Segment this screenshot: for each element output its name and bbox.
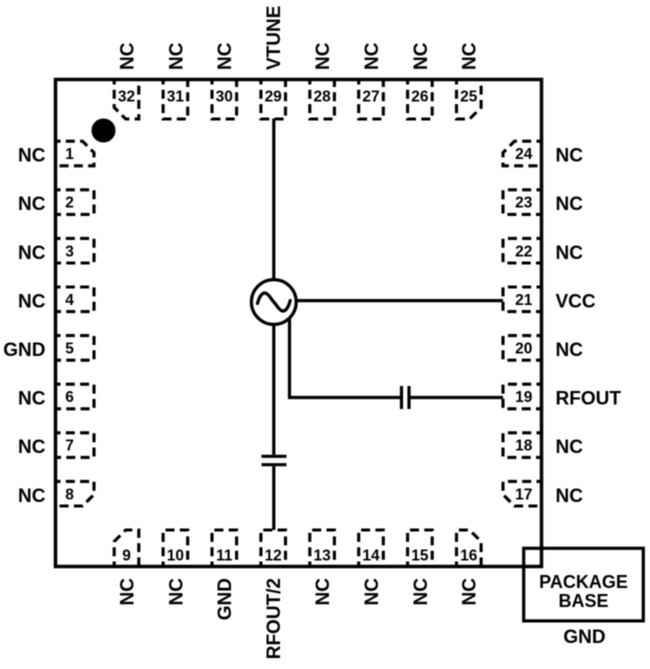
svg-text:22: 22: [515, 243, 532, 260]
svg-text:31: 31: [167, 88, 185, 105]
svg-text:NC: NC: [556, 340, 584, 361]
svg-text:29: 29: [265, 88, 283, 105]
pin 32 pad: [114, 80, 139, 120]
svg-text:VCC: VCC: [556, 291, 596, 312]
svg-text:NC: NC: [460, 42, 481, 70]
svg-text:NC: NC: [411, 578, 432, 606]
pin 23 pad: [503, 190, 542, 215]
svg-text:5: 5: [65, 341, 74, 358]
pin 18 pad: [503, 433, 542, 458]
svg-text:27: 27: [362, 88, 379, 105]
pin 30 pad: [212, 80, 237, 120]
svg-text:NC: NC: [362, 42, 383, 70]
pin 24 pad: [503, 141, 542, 166]
pin 1 index dot: [92, 119, 116, 143]
svg-text:NC: NC: [18, 291, 46, 312]
svg-text:NC: NC: [117, 578, 138, 606]
svg-text:NC: NC: [18, 389, 46, 410]
svg-text:7: 7: [65, 438, 74, 455]
svg-text:NC: NC: [556, 486, 584, 507]
pin 29 pad: [261, 80, 286, 120]
svg-text:GND: GND: [563, 627, 605, 648]
pin 11 pad: [212, 530, 237, 567]
pin 15 pad: [408, 530, 433, 567]
pin 10 pad: [163, 530, 188, 567]
svg-text:10: 10: [167, 548, 184, 565]
svg-text:25: 25: [460, 88, 478, 105]
svg-text:12: 12: [265, 548, 282, 565]
svg-text:20: 20: [515, 341, 532, 358]
svg-text:1: 1: [65, 146, 74, 163]
svg-text:16: 16: [460, 548, 478, 565]
svg-text:NC: NC: [556, 437, 584, 458]
svg-text:26: 26: [411, 88, 429, 105]
svg-text:18: 18: [515, 438, 533, 455]
pin 5 pad: [56, 336, 95, 361]
svg-text:NC: NC: [166, 42, 187, 70]
pin 9 pad: [114, 530, 139, 567]
wire oscillator down to capacitor C2: [272, 324, 275, 454]
svg-text:17: 17: [515, 486, 532, 503]
svg-text:RFOUT: RFOUT: [556, 389, 622, 410]
svg-text:NC: NC: [18, 437, 46, 458]
pin 16 pad: [457, 530, 482, 567]
svg-text:VTUNE: VTUNE: [264, 6, 285, 70]
svg-text:NC: NC: [362, 578, 383, 606]
pin 2 pad: [56, 190, 95, 215]
pin 21 pad: [503, 287, 542, 312]
pin 14 pad: [359, 530, 384, 567]
svg-text:28: 28: [313, 88, 331, 105]
svg-text:NC: NC: [411, 42, 432, 70]
svg-text:2: 2: [65, 195, 74, 212]
wire capacitor C2 to RFOUT/2 pin12: [272, 466, 275, 530]
svg-text:PACKAGE: PACKAGE: [539, 572, 628, 592]
pin 12 pad: [261, 530, 286, 567]
pin 31 pad: [163, 80, 188, 120]
pin 17 pad: [503, 481, 542, 506]
svg-text:NC: NC: [18, 194, 46, 215]
svg-text:NC: NC: [18, 243, 46, 264]
svg-text:GND: GND: [215, 578, 236, 620]
svg-text:NC: NC: [556, 243, 584, 264]
svg-text:NC: NC: [460, 578, 481, 606]
pin 19 pad: [503, 384, 542, 409]
svg-text:24: 24: [515, 146, 533, 163]
svg-text:RFOUT/2: RFOUT/2: [264, 578, 285, 659]
svg-text:NC: NC: [166, 578, 187, 606]
wire oscillator down-right to RFOUT branch: [290, 318, 401, 398]
pin 1 pad: [56, 141, 95, 166]
svg-text:4: 4: [65, 292, 74, 309]
svg-text:23: 23: [515, 195, 533, 212]
sine wave inside oscillator: [258, 293, 291, 311]
svg-text:NC: NC: [313, 42, 334, 70]
pin 4 pad: [56, 287, 95, 312]
svg-text:14: 14: [362, 548, 380, 565]
svg-text:30: 30: [216, 88, 233, 105]
pin 7 pad: [56, 433, 95, 458]
pin 22 pad: [503, 238, 542, 263]
pin 26 pad: [408, 80, 433, 120]
capacitor C2 (RFOUT/2 coupling): [262, 455, 287, 458]
svg-text:NC: NC: [18, 486, 46, 507]
svg-text:NC: NC: [215, 42, 236, 70]
pin 3 pad: [56, 238, 95, 263]
pin 27 pad: [359, 80, 384, 120]
svg-text:GND: GND: [3, 340, 45, 361]
svg-text:11: 11: [216, 548, 233, 565]
wire oscillator to VCC pin21: [296, 299, 503, 302]
svg-text:NC: NC: [556, 194, 584, 215]
svg-text:32: 32: [118, 88, 135, 105]
pin 20 pad: [503, 336, 542, 361]
op-amp oscillator symbol (VCO): [251, 280, 296, 325]
svg-text:3: 3: [65, 243, 74, 260]
package outline U1: [56, 80, 542, 567]
pin 6 pad: [56, 384, 95, 409]
pin 13 pad: [310, 530, 335, 567]
svg-text:NC: NC: [117, 42, 138, 70]
svg-text:NC: NC: [18, 146, 46, 167]
package base pad box: [524, 548, 644, 621]
pin 28 pad: [310, 80, 335, 120]
wire capacitor C1 to RFOUT pin19: [411, 396, 504, 399]
wire VTUNE pin29 to oscillator: [272, 119, 275, 281]
svg-text:NC: NC: [556, 146, 584, 167]
pin 8 pad: [56, 481, 95, 506]
svg-text:19: 19: [515, 389, 533, 406]
svg-text:13: 13: [313, 548, 331, 565]
svg-text:NC: NC: [313, 578, 334, 606]
svg-text:9: 9: [122, 548, 131, 565]
capacitor C1 (RFOUT coupling): [400, 386, 403, 409]
svg-text:6: 6: [65, 389, 74, 406]
svg-text:8: 8: [65, 486, 74, 503]
svg-text:21: 21: [515, 292, 533, 309]
svg-text:15: 15: [411, 548, 429, 565]
svg-text:BASE: BASE: [558, 591, 608, 611]
pin 25 pad: [457, 80, 482, 120]
